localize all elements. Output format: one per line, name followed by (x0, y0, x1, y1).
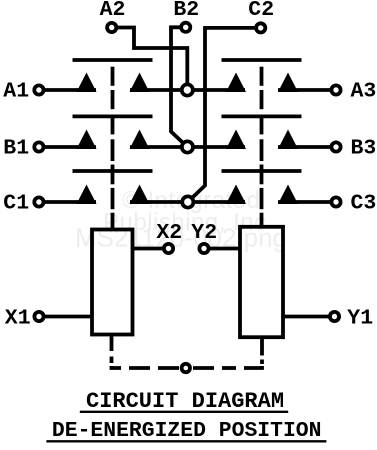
contact bar C right pole (222, 169, 302, 173)
terminal A1 (34, 85, 43, 94)
svg-text:B3: B3 (351, 137, 377, 161)
wire C2 to node C (188, 28, 255, 202)
node C junction (182, 196, 193, 207)
terminal C3 (331, 197, 340, 206)
moving contact row B right pole, right triangle (278, 130, 298, 150)
wire row A segment 3 (to A3) (278, 88, 331, 92)
svg-text:C2: C2 (248, 0, 274, 22)
wire Y1 to coil R (283, 315, 329, 319)
wire row C segment 2 (center) (130, 200, 245, 204)
mechanical link coil R to bottom bar (dashed) (244, 337, 262, 368)
moving contact row A left pole, left triangle (77, 73, 97, 93)
moving contact row A right pole, right triangle (278, 73, 298, 93)
terminal C1 (34, 197, 43, 206)
moving contact row B left pole, right triangle (130, 130, 150, 150)
svg-text:B2: B2 (173, 0, 199, 22)
terminal X2 (164, 244, 173, 253)
node A junction (182, 84, 193, 95)
coil L (left operating coil) (92, 230, 133, 335)
moving contact row A left pole, right triangle (130, 73, 150, 93)
moving contact row B left pole, left triangle (77, 130, 97, 150)
wire B2 to node B (171, 27, 187, 147)
wire row C segment 1 (C1 to left contact) (44, 200, 96, 204)
svg-text:C3: C3 (351, 192, 377, 216)
terminal C2 (256, 23, 265, 32)
wire X2 to coil L (132, 247, 162, 251)
contact bar B right pole (222, 115, 302, 119)
node B junction (182, 141, 193, 152)
coil R (right operating coil) (240, 227, 283, 337)
svg-text:X2: X2 (156, 221, 182, 245)
moving contact row C right pole, right triangle (278, 185, 298, 205)
contact bar A left pole (73, 58, 153, 62)
terminal B3 (331, 142, 340, 151)
moving contact row C left pole, left triangle (77, 185, 97, 205)
wire row B segment 2 (center) (130, 145, 245, 149)
wire row A segment 1 (A1 to left contact) (44, 88, 96, 92)
terminal Y1 (330, 312, 339, 321)
wire row B segment 3 (to B3) (278, 145, 331, 149)
terminal A2 (107, 23, 116, 32)
contact bar B left pole (73, 115, 153, 119)
svg-text:X1: X1 (5, 307, 31, 331)
bottom linkage dashed bar (129, 366, 236, 370)
wire row B segment 1 (B1 to left contact) (44, 145, 96, 149)
svg-text:A2: A2 (100, 0, 126, 22)
terminal B2 (181, 23, 190, 32)
svg-text:Y1: Y1 (347, 307, 373, 331)
terminal B1 (34, 142, 43, 151)
mechanical link coil L to bottom bar (dashed) (112, 335, 122, 369)
actuator linkage left (dashed) (111, 67, 115, 228)
svg-text:A3: A3 (351, 80, 377, 104)
svg-text:C1: C1 (3, 192, 29, 216)
svg-text:Y2: Y2 (191, 221, 217, 245)
wire A2 to node A (118, 28, 187, 91)
terminal Y2 (199, 244, 208, 253)
moving contact row B right pole, left triangle (226, 130, 246, 150)
wire Y2 to coil R (210, 247, 240, 251)
wire row A segment 2 (center) (130, 88, 245, 92)
actuator linkage right (dashed) (260, 67, 264, 228)
contact bar A right pole (222, 58, 302, 62)
svg-text:CIRCUIT DIAGRAM: CIRCUIT DIAGRAM (86, 389, 284, 414)
svg-text:B1: B1 (3, 137, 29, 161)
moving contact row C left pole, right triangle (130, 185, 150, 205)
contact bar C left pole (73, 169, 153, 173)
svg-text:A1: A1 (3, 80, 29, 104)
wire row C segment 3 (to C3) (278, 200, 331, 204)
title underline 1 (80, 411, 288, 413)
terminal A3 (331, 85, 340, 94)
title underline 2 (46, 440, 326, 442)
terminal X1 (34, 312, 43, 321)
moving contact row C right pole, left triangle (226, 185, 246, 205)
moving contact row A right pole, left triangle (226, 73, 246, 93)
bottom linkage pivot (182, 364, 190, 372)
svg-text:DE-ENERGIZED POSITION: DE-ENERGIZED POSITION (52, 419, 322, 443)
wire X1 to coil L (45, 315, 92, 319)
